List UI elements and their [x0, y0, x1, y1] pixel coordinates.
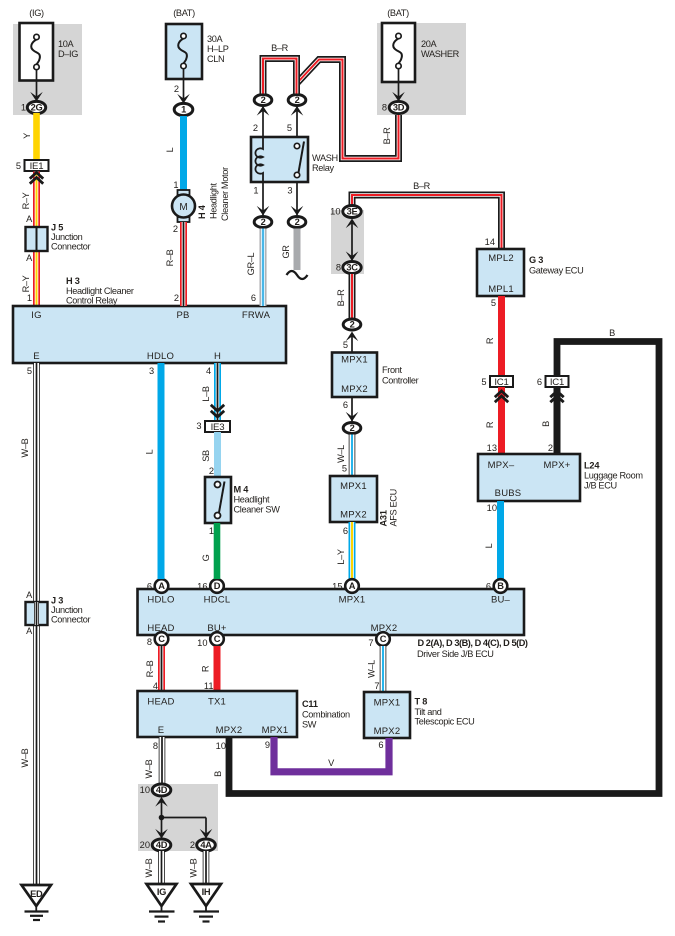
- connector 3E pin 10: [330, 206, 361, 218]
- node A (HDLO): [147, 579, 168, 593]
- wire Y yellow: [22, 113, 37, 160]
- svg-text:R: R: [485, 421, 495, 428]
- connector 2 (relay pin1 out): [254, 217, 272, 228]
- svg-text:Cleaner SW: Cleaner SW: [234, 505, 281, 515]
- connector 4A pin 2: [190, 839, 215, 851]
- svg-text:W–L: W–L: [336, 445, 346, 463]
- connector 2 (AFS top): [343, 423, 361, 434]
- svg-text:Tilt and: Tilt and: [415, 707, 442, 717]
- svg-text:MPX1: MPX1: [262, 725, 289, 736]
- svg-text:M: M: [179, 202, 187, 213]
- ECU T8 Tilt and Telescopic: [364, 692, 474, 738]
- svg-text:IE1: IE1: [30, 161, 44, 172]
- svg-text:Junction: Junction: [51, 605, 83, 615]
- node D (HDCL): [197, 579, 224, 593]
- wire W-L MPX2 to T8 MPX1: [367, 646, 384, 692]
- svg-text:B: B: [497, 581, 504, 591]
- svg-text:MPX–: MPX–: [488, 460, 515, 471]
- svg-text:IH: IH: [202, 887, 211, 897]
- svg-text:C: C: [214, 634, 221, 644]
- svg-text:B: B: [541, 421, 551, 427]
- connector IC1 pin 5: [481, 376, 513, 388]
- svg-text:R–Y: R–Y: [21, 192, 31, 209]
- wire B-R 3E to gateway MPL2: [352, 181, 502, 248]
- svg-text:MPX1: MPX1: [374, 698, 401, 709]
- svg-text:14: 14: [485, 237, 495, 247]
- svg-text:6: 6: [251, 293, 256, 303]
- svg-text:G 3: G 3: [529, 255, 543, 265]
- wire R IC1 to L24 MPX-: [485, 387, 502, 453]
- svg-text:10: 10: [330, 207, 340, 217]
- connector IE1 pin 5: [16, 160, 49, 172]
- svg-text:IC1: IC1: [550, 377, 564, 388]
- svg-text:8: 8: [382, 103, 387, 113]
- node C (BU+): [197, 632, 224, 648]
- svg-text:IE3: IE3: [211, 422, 225, 433]
- connector 3C pin 8: [336, 262, 361, 274]
- ground IG: [147, 884, 177, 922]
- svg-text:16: 16: [197, 582, 207, 592]
- svg-text:4D: 4D: [156, 840, 168, 850]
- svg-text:Relay: Relay: [312, 163, 334, 173]
- svg-text:2: 2: [253, 123, 258, 133]
- svg-text:1: 1: [253, 186, 258, 196]
- junction connector J5: [26, 223, 91, 252]
- svg-text:ED: ED: [30, 889, 43, 899]
- svg-text:C: C: [158, 634, 165, 644]
- ECU A31 AFS: [330, 476, 399, 527]
- svg-text:10: 10: [140, 785, 150, 795]
- svg-text:W–B: W–B: [144, 858, 154, 877]
- connector 3D pin 8: [382, 101, 408, 113]
- svg-text:A31: A31: [379, 510, 389, 526]
- svg-text:2: 2: [209, 466, 214, 476]
- svg-text:13: 13: [487, 443, 497, 453]
- svg-text:Controller: Controller: [382, 376, 419, 386]
- svg-text:MPL1: MPL1: [488, 284, 514, 295]
- svg-text:7: 7: [374, 681, 379, 691]
- wire R BU+ to TX1: [201, 646, 218, 691]
- svg-text:W–B: W–B: [20, 748, 30, 767]
- junction connector J3: [26, 596, 91, 626]
- relay H3 Headlight Cleaner Control Relay: [13, 276, 286, 376]
- svg-text:1: 1: [181, 105, 186, 115]
- svg-text:R–Y: R–Y: [21, 275, 31, 292]
- svg-text:W–B: W–B: [20, 438, 30, 457]
- svg-text:4: 4: [206, 366, 211, 376]
- svg-text:B: B: [213, 771, 223, 777]
- svg-text:E: E: [158, 725, 165, 736]
- svg-text:L: L: [165, 147, 175, 152]
- svg-text:Headlight: Headlight: [209, 183, 219, 219]
- ECU G3 Gateway: [477, 249, 583, 296]
- svg-text:6: 6: [378, 740, 383, 750]
- wire G M4 to node D: [201, 523, 217, 579]
- svg-text:B: B: [609, 328, 615, 338]
- svg-text:T 8: T 8: [415, 697, 428, 707]
- fuse block shading (BAT washer): [377, 23, 466, 115]
- svg-text:1: 1: [27, 293, 32, 303]
- svg-text:HEAD: HEAD: [147, 697, 174, 708]
- svg-text:2: 2: [548, 443, 553, 453]
- svg-text:20A: 20A: [421, 39, 438, 49]
- svg-text:5: 5: [491, 298, 496, 308]
- svg-text:B–R: B–R: [413, 181, 431, 191]
- svg-text:8: 8: [153, 741, 158, 751]
- svg-text:4A: 4A: [200, 840, 212, 850]
- wire B loop (MPX+ / IC1 / C11 MPX2 ground net): [213, 328, 659, 794]
- svg-text:2: 2: [173, 224, 178, 234]
- svg-text:R–B: R–B: [145, 660, 155, 677]
- motor H4 Headlight Cleaner Motor: [172, 167, 230, 222]
- svg-text:H 4: H 4: [197, 204, 207, 219]
- wire R gateway MPL1 to IC1: [485, 296, 502, 376]
- svg-text:C11: C11: [302, 699, 318, 709]
- svg-text:1: 1: [209, 526, 214, 536]
- svg-text:1: 1: [21, 103, 26, 113]
- svg-text:IG: IG: [31, 310, 41, 321]
- svg-text:C: C: [380, 634, 387, 644]
- svg-text:GR–L: GR–L: [246, 252, 256, 275]
- wire L blue to motor: [165, 116, 184, 191]
- svg-text:MPL2: MPL2: [488, 253, 514, 264]
- svg-text:W–L: W–L: [367, 660, 377, 678]
- svg-text:9: 9: [265, 740, 270, 750]
- svg-text:H–LP: H–LP: [207, 44, 229, 54]
- svg-text:GR: GR: [281, 245, 291, 259]
- svg-text:MPX1: MPX1: [340, 481, 367, 492]
- svg-text:3: 3: [196, 421, 201, 431]
- svg-text:6: 6: [343, 526, 348, 536]
- svg-text:4D: 4D: [156, 785, 168, 795]
- svg-text:HDLO: HDLO: [147, 351, 174, 362]
- svg-text:2: 2: [174, 293, 179, 303]
- wire GR-L to FRWA: [246, 229, 263, 307]
- svg-text:4: 4: [153, 681, 158, 691]
- svg-text:Headlight Cleaner: Headlight Cleaner: [66, 286, 134, 296]
- svg-text:6: 6: [486, 582, 491, 592]
- svg-text:(BAT): (BAT): [387, 8, 409, 18]
- connector 2G pin 1: [21, 101, 46, 113]
- connector 2 (front controller top): [343, 319, 361, 353]
- splice 3E to 3C: [346, 219, 359, 262]
- fuse 30A H-LP CLN: [166, 8, 229, 79]
- ECU Driver Side J/B (D2-D5): [138, 589, 528, 659]
- wire W-B C11 E to 4D: [144, 737, 162, 784]
- svg-text:1: 1: [173, 180, 178, 190]
- svg-text:J 3: J 3: [51, 596, 63, 606]
- svg-text:2: 2: [295, 217, 300, 227]
- node C (HEAD): [147, 632, 168, 647]
- svg-text:3C: 3C: [346, 263, 358, 273]
- switch M4 Headlight Cleaner SW: [205, 477, 280, 523]
- svg-text:B–R: B–R: [382, 127, 392, 145]
- connector 2 (relay pin3 out): [288, 217, 306, 228]
- svg-text:MPX2: MPX2: [341, 384, 368, 395]
- svg-text:Control Relay: Control Relay: [66, 296, 118, 306]
- svg-text:Connector: Connector: [51, 241, 91, 251]
- svg-text:HDLO: HDLO: [147, 595, 174, 606]
- svg-text:D: D: [214, 581, 221, 591]
- svg-text:3E: 3E: [347, 207, 358, 217]
- svg-text:MPX+: MPX+: [544, 460, 571, 471]
- svg-text:2: 2: [261, 217, 266, 227]
- svg-text:Luggage Room: Luggage Room: [584, 471, 643, 481]
- svg-text:Telescopic ECU: Telescopic ECU: [415, 717, 475, 727]
- svg-text:SW: SW: [302, 719, 317, 729]
- svg-text:MPX2: MPX2: [216, 725, 243, 736]
- wire W-B 4D to ground IG: [144, 851, 162, 884]
- svg-text:5: 5: [287, 123, 292, 133]
- svg-text:3D: 3D: [393, 103, 405, 113]
- svg-text:5: 5: [343, 340, 348, 350]
- svg-text:M 4: M 4: [234, 484, 250, 494]
- svg-text:L24: L24: [584, 461, 600, 471]
- node A (MPX1): [332, 579, 359, 593]
- svg-text:Cleaner Motor: Cleaner Motor: [220, 167, 230, 221]
- connector 1: [174, 103, 193, 115]
- svg-text:TX1: TX1: [208, 697, 226, 708]
- svg-text:3: 3: [149, 366, 154, 376]
- wire fuse to connector 1: [174, 69, 190, 104]
- svg-text:6: 6: [147, 582, 152, 592]
- svg-text:R: R: [201, 665, 211, 672]
- connector shading 4D/4A: [138, 784, 218, 851]
- svg-text:BUBS: BUBS: [495, 488, 522, 499]
- svg-text:2: 2: [350, 423, 355, 433]
- svg-text:R–B: R–B: [165, 249, 175, 266]
- switch C11 Combination SW: [138, 691, 350, 737]
- svg-text:Combination: Combination: [302, 709, 350, 719]
- svg-text:W–B: W–B: [189, 858, 199, 877]
- wire SB IE3 to M4: [201, 432, 218, 477]
- svg-text:2: 2: [261, 95, 266, 105]
- svg-text:PB: PB: [176, 310, 189, 321]
- wire R-Y: [21, 172, 37, 307]
- connector 4D pin 10: [140, 784, 171, 796]
- relay pin 3 lead down: [287, 182, 303, 216]
- svg-text:10: 10: [197, 638, 207, 648]
- svg-text:BU–: BU–: [491, 595, 511, 606]
- connector IE3 pin 3: [196, 421, 230, 433]
- fuse block shading (IG): [13, 24, 82, 115]
- svg-text:Gateway ECU: Gateway ECU: [529, 266, 583, 276]
- relay switch contacts: [294, 142, 304, 178]
- chevron splice IC1 pin 5: [495, 391, 508, 402]
- connector 4D pin 20: [140, 839, 171, 851]
- svg-text:H: H: [214, 351, 221, 362]
- svg-text:5: 5: [481, 377, 486, 387]
- relay pin 2 lead up: [253, 106, 269, 137]
- svg-text:10A: 10A: [58, 39, 75, 49]
- ECU L24 Luggage Room J/B: [478, 454, 643, 501]
- wire W-B H3 E to ground ED: [20, 363, 37, 885]
- relay coil: [255, 138, 263, 181]
- svg-text:11: 11: [204, 681, 214, 691]
- wire L BUBS to BU- (B): [484, 501, 501, 579]
- wire V C11 MPX1 to T8 MPX2: [265, 737, 389, 772]
- svg-text:B–R: B–R: [336, 289, 346, 307]
- svg-text:J 5: J 5: [51, 223, 63, 233]
- svg-text:30A: 30A: [207, 34, 224, 44]
- svg-text:L–B: L–B: [201, 386, 211, 402]
- svg-text:CLN: CLN: [207, 54, 224, 64]
- fuse 10A D-IG: [20, 8, 79, 81]
- svg-text:Driver Side J/B ECU: Driver Side J/B ECU: [417, 649, 494, 659]
- connector 2 (relay coil top): [254, 95, 272, 106]
- svg-text:2G: 2G: [31, 103, 43, 113]
- svg-text:Front: Front: [382, 365, 402, 375]
- chevron splice up: [30, 173, 43, 184]
- svg-text:SB: SB: [201, 450, 211, 462]
- wire GR open end: [281, 229, 308, 280]
- fuse 20A WASHER: [382, 8, 460, 82]
- svg-text:MPX2: MPX2: [374, 726, 401, 737]
- node C (MPX2): [368, 632, 389, 648]
- wire R-B motor to PB: [165, 222, 184, 306]
- svg-text:HDCL: HDCL: [204, 595, 231, 606]
- node B (BU-): [486, 579, 507, 593]
- svg-text:Connector: Connector: [51, 615, 91, 625]
- svg-text:AFS ECU: AFS ECU: [389, 489, 399, 526]
- svg-text:3: 3: [287, 186, 292, 196]
- svg-text:B–R: B–R: [271, 43, 289, 53]
- svg-text:MPX1: MPX1: [341, 355, 368, 366]
- svg-text:L: L: [145, 449, 155, 454]
- svg-text:IC1: IC1: [494, 377, 508, 388]
- wire front controller MPX2 down: [343, 397, 358, 422]
- svg-text:MPX1: MPX1: [339, 595, 366, 606]
- wire B-R branch to washer fuse: [298, 60, 399, 159]
- svg-text:8: 8: [336, 263, 341, 273]
- svg-text:2: 2: [350, 320, 355, 330]
- svg-text:G: G: [201, 554, 211, 561]
- svg-text:2: 2: [190, 840, 195, 850]
- wire R-B HEAD to C11: [145, 646, 162, 691]
- wire L-Y AFS MPX2 to MPX1 (A): [336, 522, 352, 579]
- wire W-L to AFS MPX1: [336, 435, 352, 477]
- svg-text:J/B ECU: J/B ECU: [584, 481, 617, 491]
- relay WASH: [251, 137, 338, 182]
- connector shading 3E/3C: [331, 210, 364, 274]
- svg-text:FRWA: FRWA: [242, 310, 271, 321]
- wire L-B H3 H to IE3: [201, 363, 224, 420]
- svg-text:(BAT): (BAT): [173, 8, 195, 18]
- svg-text:MPX2: MPX2: [340, 510, 367, 521]
- svg-text:H 3: H 3: [66, 276, 80, 286]
- svg-text:D 2(A), D 3(B), D 4(C), D 5(D): D 2(A), D 3(B), D 4(C), D 5(D): [418, 638, 528, 648]
- svg-text:5: 5: [342, 464, 347, 474]
- ECU Front Controller: [332, 353, 419, 398]
- svg-text:6: 6: [537, 377, 542, 387]
- ground IH: [191, 884, 221, 922]
- svg-text:6: 6: [343, 400, 348, 410]
- svg-text:15: 15: [332, 582, 342, 592]
- wire from fuse to 2G: [30, 70, 43, 102]
- svg-text:E: E: [33, 351, 40, 362]
- svg-text:A: A: [158, 581, 165, 591]
- svg-text:8: 8: [147, 637, 152, 647]
- svg-text:5: 5: [27, 366, 32, 376]
- svg-text:IG: IG: [157, 887, 166, 897]
- svg-text:5: 5: [16, 161, 21, 171]
- svg-text:R: R: [485, 337, 495, 344]
- wire B-R 3C to connector 2: [336, 274, 352, 318]
- wire B-R hoop between connectors: [263, 43, 297, 94]
- splice 4D to 4D/4A: [155, 797, 212, 839]
- svg-text:10: 10: [216, 741, 226, 751]
- svg-text:Headlight: Headlight: [234, 495, 270, 505]
- svg-text:D–IG: D–IG: [58, 49, 78, 59]
- wire B IC1 to L24 MPX+: [541, 387, 557, 453]
- svg-text:L: L: [484, 543, 494, 548]
- svg-text:Y: Y: [22, 133, 32, 139]
- ground ED: [22, 885, 52, 920]
- svg-text:2: 2: [174, 84, 179, 94]
- connector IC1 pin 6: [537, 376, 569, 388]
- svg-text:2: 2: [295, 95, 300, 105]
- connector 2 (relay sw top): [288, 95, 306, 106]
- relay pin 5 lead up: [287, 106, 303, 137]
- svg-text:7: 7: [368, 638, 373, 648]
- svg-text:WASHER: WASHER: [421, 49, 460, 59]
- wire L HDLO to node A: [145, 363, 162, 579]
- svg-text:W–B: W–B: [144, 759, 154, 778]
- svg-text:WASH: WASH: [312, 153, 338, 163]
- svg-text:A: A: [349, 581, 356, 591]
- svg-text:10: 10: [487, 503, 497, 513]
- svg-text:L–Y: L–Y: [336, 549, 346, 565]
- svg-text:(IG): (IG): [29, 8, 44, 18]
- relay pin 1 lead down: [253, 182, 269, 216]
- svg-text:20: 20: [140, 840, 150, 850]
- chevron splice IC1 pin 6: [550, 391, 563, 402]
- wire W-B 4A to ground IH: [189, 851, 207, 884]
- wire fuse to 3D: [392, 69, 405, 102]
